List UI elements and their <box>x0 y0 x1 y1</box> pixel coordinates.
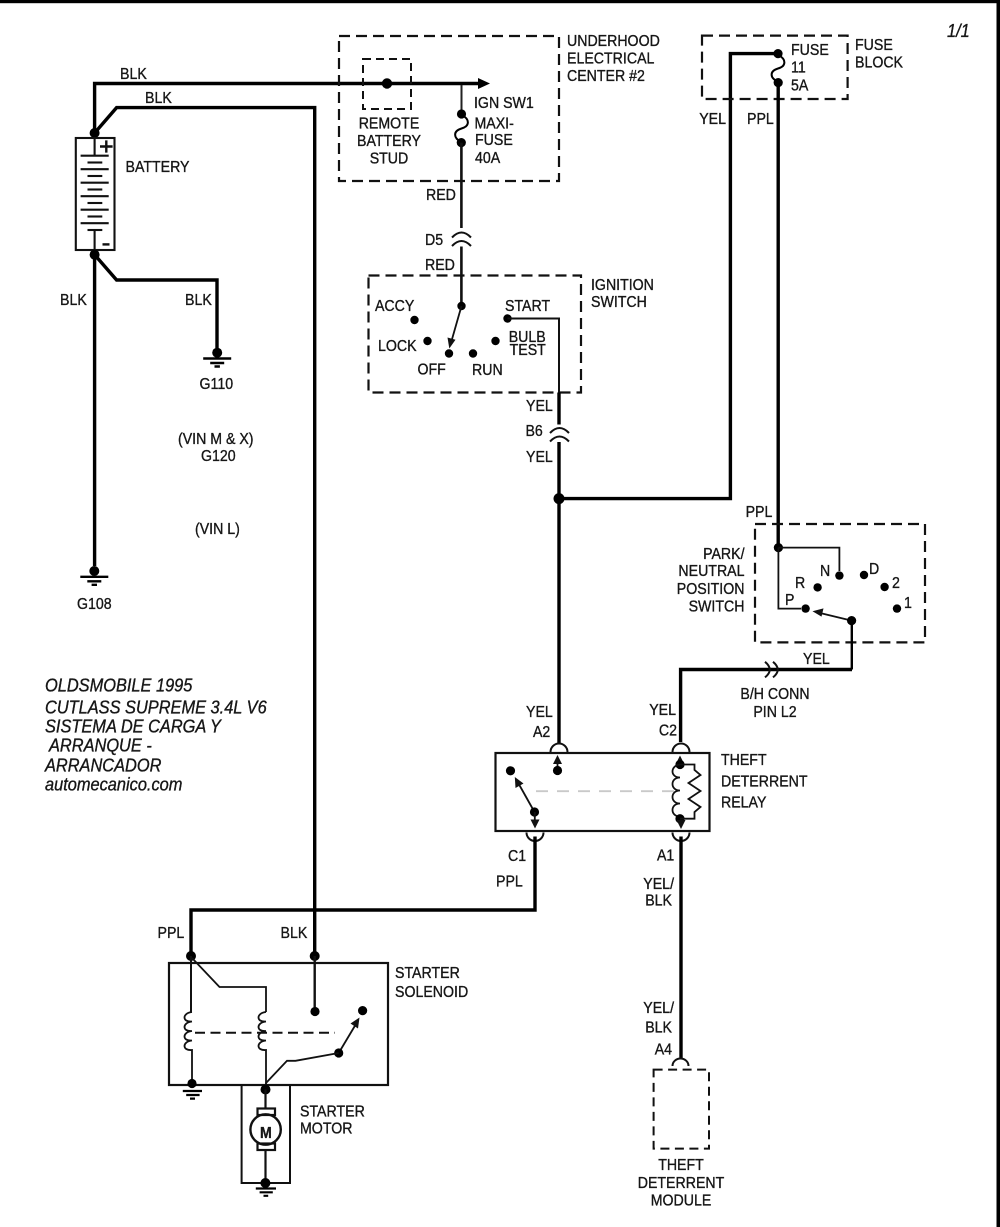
wire motor to ground <box>264 1150 266 1183</box>
svg-text:YEL: YEL <box>526 398 553 415</box>
fuse IGN SW1 MAXI-FUSE 40A <box>455 109 468 147</box>
wire solenoid switch to motor junction <box>266 1053 339 1087</box>
svg-text:PPL: PPL <box>747 111 774 128</box>
theft deterrent module dashed box <box>654 1070 709 1149</box>
svg-text:G120: G120 <box>201 448 236 465</box>
svg-text:YEL: YEL <box>649 702 676 719</box>
node ACCY <box>410 316 418 324</box>
svg-text:BLK: BLK <box>185 292 212 309</box>
relay switch lever <box>519 784 535 813</box>
svg-text:RED: RED <box>425 257 455 274</box>
battery B+ wire (BLK) to remote stud with arrow <box>95 84 481 132</box>
svg-text:A2: A2 <box>533 724 550 741</box>
node N <box>835 571 843 579</box>
node D <box>860 571 868 579</box>
svg-text:PPL: PPL <box>496 874 523 891</box>
node coil1 to ground <box>187 1079 196 1088</box>
svg-text:PPL: PPL <box>158 925 185 942</box>
wire PNP input to P contact <box>778 548 801 609</box>
svg-text:MOTOR: MOTOR <box>300 1121 353 1138</box>
svg-text:MAXI-: MAXI- <box>475 116 514 133</box>
battery minus mark <box>103 243 110 245</box>
solenoid switch lever <box>339 1024 356 1053</box>
wire RED fuse to D5 <box>460 143 463 228</box>
relay coil parallel resistor <box>680 765 701 819</box>
node YEL junction <box>554 493 565 504</box>
node R <box>813 583 821 591</box>
solenoid dashed actuation line <box>195 1032 335 1034</box>
arrow at end of B+ wire <box>478 78 490 89</box>
svg-text:YEL: YEL <box>526 704 553 721</box>
ground (solenoid coil 1) <box>183 1091 202 1099</box>
relay coil to A1 arrow <box>677 820 686 829</box>
svg-text:BLK: BLK <box>645 1020 672 1037</box>
starter motor enclosure <box>242 1085 290 1183</box>
battery negative wire (BLK) to ground G110 <box>95 255 217 348</box>
connector B/H CONN PIN L2 <box>765 662 778 678</box>
svg-text:ACCY: ACCY <box>375 298 415 315</box>
svg-text:SWITCH: SWITCH <box>689 599 745 616</box>
relay pin A2 internal arrow <box>557 760 559 771</box>
svg-text:IGNITION: IGNITION <box>591 277 654 294</box>
node BULB TEST <box>491 337 499 345</box>
svg-text:11: 11 <box>791 60 806 77</box>
node PNP lever pivot <box>847 616 856 625</box>
solenoid coil 2 <box>259 1012 267 1086</box>
relay switch to C1 arrow <box>534 812 536 820</box>
node battery positive terminal <box>90 128 100 138</box>
node RUN <box>469 349 477 357</box>
fuse FUSE 11 5A <box>772 49 785 87</box>
svg-text:(VIN L): (VIN L) <box>195 521 240 538</box>
battery BAT1 <box>76 138 115 250</box>
node solenoid switch upper contact <box>358 1006 367 1015</box>
svg-text:SWITCH: SWITCH <box>591 294 647 311</box>
svg-text:BATTERY: BATTERY <box>126 159 190 176</box>
relay pin C2 internal arrow <box>679 761 681 765</box>
wire BLK into solenoid contact <box>314 956 316 1007</box>
svg-text:START: START <box>505 298 550 315</box>
svg-text:FUSE: FUSE <box>475 132 513 149</box>
svg-text:B/H CONN: B/H CONN <box>740 686 809 703</box>
connector cup C1 <box>527 833 544 842</box>
node OFF <box>445 349 453 357</box>
svg-text:PIN L2: PIN L2 <box>753 704 796 721</box>
svg-text:YEL/: YEL/ <box>643 876 674 893</box>
svg-text:THEFT: THEFT <box>721 752 767 769</box>
svg-text:1: 1 <box>904 595 912 612</box>
svg-text:UNDERHOOD: UNDERHOOD <box>567 33 660 50</box>
svg-text:FUSE: FUSE <box>791 42 829 59</box>
svg-text:LOCK: LOCK <box>378 338 417 355</box>
svg-text:OFF: OFF <box>418 362 446 379</box>
svg-text:5A: 5A <box>791 78 809 95</box>
svg-text:BLK: BLK <box>120 66 147 83</box>
ignition switch dashed box <box>369 276 582 393</box>
node 2 <box>880 583 888 591</box>
svg-text:SOLENOID: SOLENOID <box>395 984 468 1001</box>
node PPL at solenoid <box>186 951 196 961</box>
wire junction to fuse block riser <box>559 54 774 499</box>
svg-text:YEL: YEL <box>526 449 553 466</box>
svg-text:SISTEMA DE CARGA Y: SISTEMA DE CARGA Y <box>45 716 222 737</box>
wire PPL into coil 1 <box>190 956 192 1012</box>
svg-text:BLK: BLK <box>645 893 672 910</box>
wire START contact to box edge <box>508 319 560 393</box>
wire YEL B6 to junction and relay A2 <box>557 442 560 744</box>
node START <box>503 314 511 322</box>
wire YEL ignition to B6 <box>557 393 560 425</box>
ignition switch rotor wire input node <box>457 302 465 310</box>
connector cup C2 <box>673 744 690 753</box>
underhood electrical center #2 dashed box <box>339 36 559 181</box>
svg-text:G108: G108 <box>77 596 112 613</box>
ground G110 <box>200 348 234 393</box>
svg-text:STUD: STUD <box>370 151 409 168</box>
svg-text:MODULE: MODULE <box>651 1193 712 1210</box>
connector cup A4 <box>673 1059 689 1066</box>
wire A1 YEL/BLK to theft deterrent module <box>679 837 682 1059</box>
svg-text:RELAY: RELAY <box>721 795 767 812</box>
svg-text:ELECTRICAL: ELECTRICAL <box>567 51 654 68</box>
svg-text:TEST: TEST <box>510 342 546 359</box>
solenoid coil 1 <box>185 1012 193 1083</box>
svg-text:D: D <box>869 561 879 578</box>
svg-text:THEFT: THEFT <box>658 1157 704 1174</box>
node starter motor junction <box>261 1085 271 1095</box>
node remote battery stud <box>382 78 392 88</box>
svg-text:BLK: BLK <box>145 90 172 107</box>
ground (starter motor) <box>260 1178 270 1188</box>
svg-text:BATTERY: BATTERY <box>357 133 421 150</box>
svg-text:A1: A1 <box>657 848 674 865</box>
connector B6 <box>550 428 569 442</box>
svg-text:YEL: YEL <box>803 651 830 668</box>
battery negative wire (BLK) to ground G108 <box>93 255 96 566</box>
svg-text:RED: RED <box>426 187 456 204</box>
battery B+ second wire (BLK) down to starter solenoid <box>95 108 315 954</box>
svg-text:BLK: BLK <box>281 925 308 942</box>
node PNP input <box>774 543 783 552</box>
relay actuation dashed line <box>536 790 674 792</box>
park/neutral position switch dashed box <box>755 524 925 642</box>
svg-text:IGN SW1: IGN SW1 <box>474 95 534 112</box>
remote battery stud dashed box <box>363 59 411 109</box>
svg-text:C1: C1 <box>508 848 526 865</box>
svg-text:ARRANQUE -: ARRANQUE - <box>48 735 152 756</box>
svg-text:B6: B6 <box>526 423 543 440</box>
node LOCK <box>423 337 431 345</box>
wire PNP input to N contact <box>778 548 839 571</box>
title block text <box>44 675 267 795</box>
node 1 <box>893 604 901 612</box>
ignition switch lever <box>452 306 462 341</box>
relay switch contact <box>506 766 515 775</box>
wire PPL branch to coil 2 <box>192 958 266 1012</box>
wire YEL PNP to B/H connector <box>851 621 853 670</box>
svg-text:NEUTRAL: NEUTRAL <box>678 563 744 580</box>
connector cup A1 <box>673 833 690 842</box>
svg-text:DETERRENT: DETERRENT <box>638 1175 725 1192</box>
connector D5 <box>452 233 471 247</box>
ground G108 <box>77 566 112 613</box>
svg-text:YEL/: YEL/ <box>643 1000 674 1017</box>
node battery negative terminal <box>90 250 100 260</box>
svg-text:STARTER: STARTER <box>300 1104 365 1121</box>
svg-text:R: R <box>795 575 805 592</box>
svg-text:ARRANCADOR: ARRANCADOR <box>44 755 161 776</box>
theft deterrent relay box <box>496 753 710 831</box>
wire RED D5 to ignition switch <box>460 247 463 307</box>
wire C1 PPL to starter solenoid <box>191 837 535 955</box>
wire junction to motor <box>264 1090 266 1109</box>
connector cup A2 <box>551 744 568 753</box>
relay coil <box>675 760 684 769</box>
svg-text:M: M <box>260 1125 272 1142</box>
svg-text:40A: 40A <box>475 150 500 167</box>
svg-text:POSITION: POSITION <box>677 581 745 598</box>
svg-text:G110: G110 <box>200 376 234 393</box>
node P <box>801 604 809 612</box>
page right border <box>997 0 1000 1227</box>
svg-text:A4: A4 <box>655 1042 672 1059</box>
node solenoid fixed contact (BLK) <box>310 1007 319 1016</box>
svg-text:RUN: RUN <box>472 362 503 379</box>
PNP switch lever <box>820 613 852 621</box>
svg-text:CUTLASS SUPREME 3.4L V6: CUTLASS SUPREME 3.4L V6 <box>45 697 267 718</box>
svg-text:CENTER #2: CENTER #2 <box>567 68 645 85</box>
svg-text:D5: D5 <box>425 232 443 249</box>
svg-text:P: P <box>785 592 794 609</box>
svg-text:(VIN M & X): (VIN M & X) <box>178 431 254 448</box>
starter motor M1 <box>250 1109 280 1151</box>
svg-text:1/1: 1/1 <box>947 20 970 41</box>
svg-text:automecanico.com: automecanico.com <box>45 774 182 795</box>
svg-text:N: N <box>820 563 830 580</box>
wire stud to maxi-fuse <box>461 85 463 112</box>
page top border <box>0 0 1000 3</box>
svg-text:YEL: YEL <box>699 111 726 128</box>
starter solenoid box <box>169 963 388 1085</box>
svg-text:C2: C2 <box>659 723 677 740</box>
svg-text:OLDSMOBILE 1995: OLDSMOBILE 1995 <box>45 675 193 696</box>
svg-text:2: 2 <box>892 575 900 592</box>
svg-text:FUSE: FUSE <box>855 37 893 54</box>
fuse block dashed box <box>702 36 848 99</box>
svg-text:PARK/: PARK/ <box>703 546 745 563</box>
svg-text:DETERRENT: DETERRENT <box>721 774 808 791</box>
svg-text:STARTER: STARTER <box>395 965 460 982</box>
wire PPL fuse block to park/neutral switch <box>777 83 780 546</box>
svg-text:PPL: PPL <box>746 504 773 521</box>
svg-text:BLK: BLK <box>60 292 87 309</box>
svg-text:BLOCK: BLOCK <box>855 55 903 72</box>
node BLK at solenoid <box>310 951 320 961</box>
svg-text:REMOTE: REMOTE <box>359 116 420 133</box>
battery plus mark <box>100 140 113 152</box>
